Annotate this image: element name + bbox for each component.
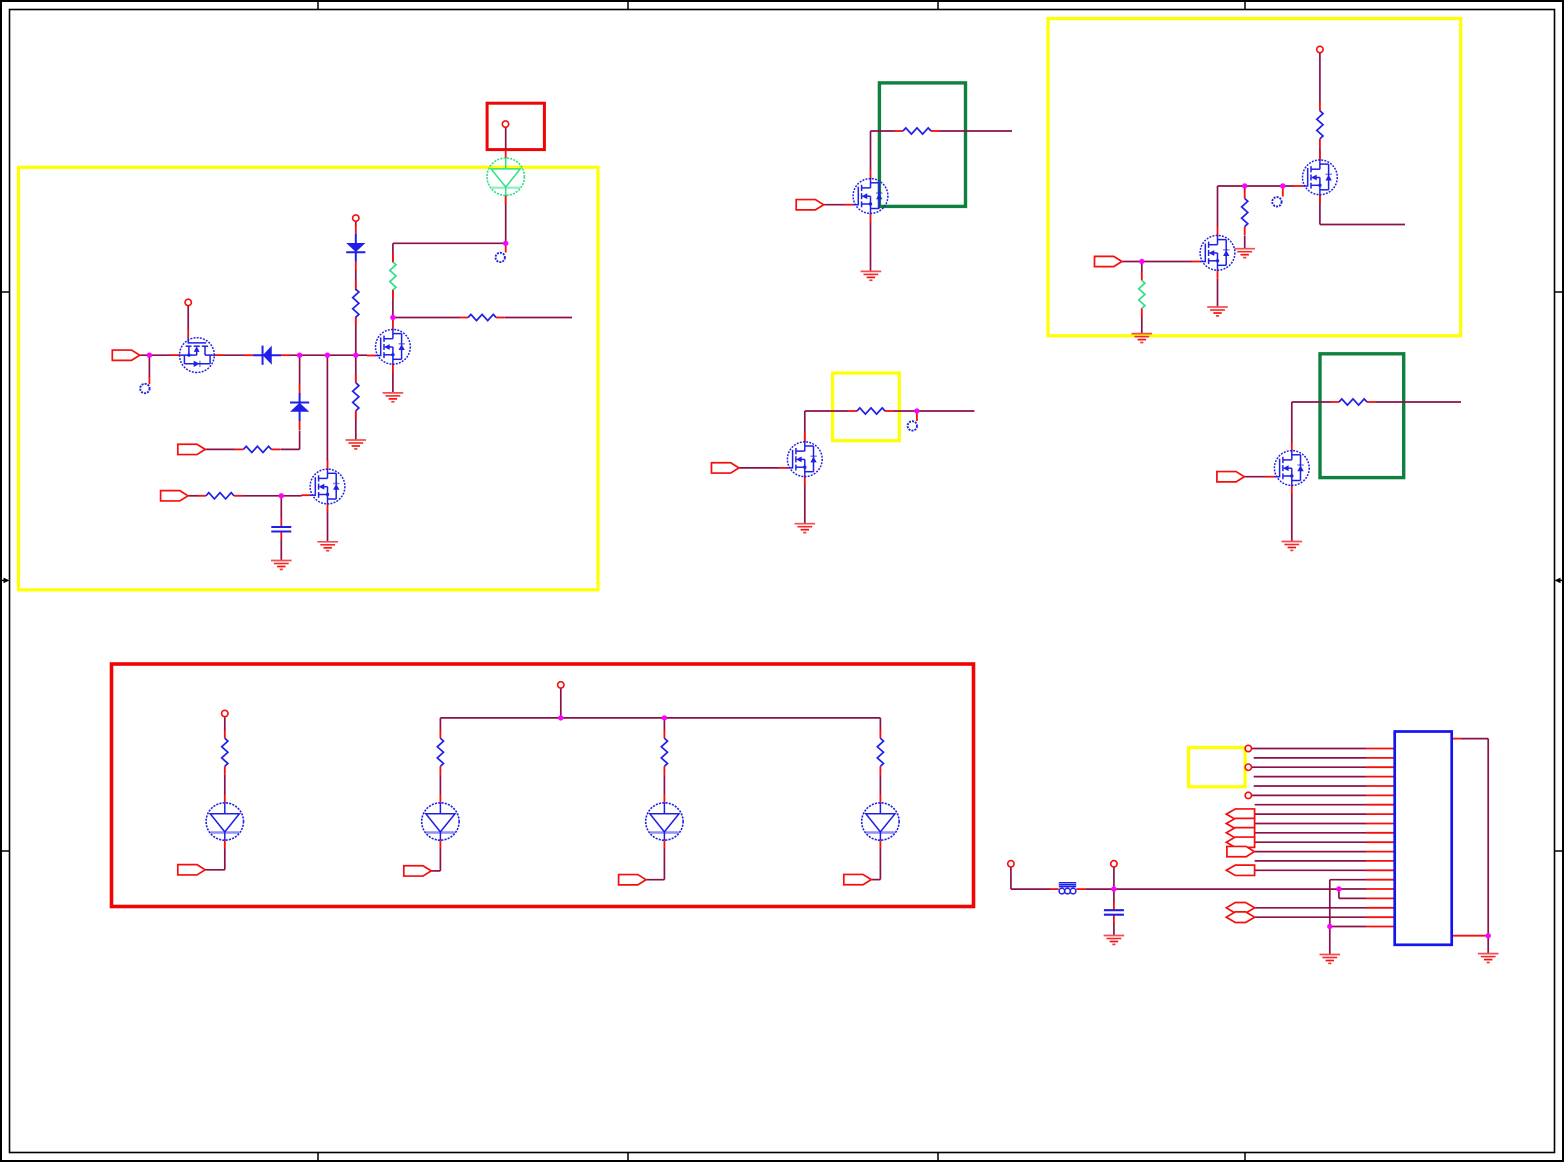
zener diode D2 bbox=[290, 384, 309, 430]
green highlight box 2 bbox=[1320, 354, 1404, 478]
wire connector row 14 bbox=[1255, 869, 1366, 871]
wire connector row 10 bbox=[1255, 832, 1366, 834]
wire to choke L1 bbox=[1011, 888, 1051, 890]
wire connector row 8 bbox=[1255, 813, 1366, 815]
port PR1 bbox=[1227, 846, 1254, 856]
wire node to Q3 drain bbox=[326, 355, 328, 461]
power pin P6 bbox=[222, 710, 228, 716]
resistor R7 bbox=[848, 408, 893, 414]
wire node to C1 bbox=[280, 496, 282, 519]
junction node H bbox=[1139, 259, 1144, 264]
port IN1 bbox=[112, 350, 139, 360]
wire port3 to R15 bbox=[188, 495, 198, 497]
wire connector row 4 bbox=[1254, 776, 1366, 778]
power pin P8 bbox=[1111, 861, 1117, 867]
ground bbox=[1234, 249, 1255, 258]
no-connect circle bbox=[140, 384, 149, 393]
wire D1 to Q2 gate node bbox=[290, 354, 368, 356]
junction node B bbox=[297, 353, 302, 358]
yellow highlight box 3 bbox=[1048, 19, 1461, 336]
border tick left y=292 bbox=[1, 291, 10, 293]
pin circle row1 bbox=[1245, 745, 1251, 751]
no-connect circle bbox=[1272, 197, 1281, 206]
capacitor C2 bbox=[1104, 902, 1124, 923]
junction node D bbox=[503, 241, 508, 246]
wire Q5 source to ground bbox=[804, 485, 806, 523]
port IN3 bbox=[161, 491, 188, 501]
wire port5 to Q5 gate bbox=[739, 467, 779, 469]
ferrite bead L1 bbox=[1050, 883, 1086, 894]
yellow highlight box 2 bbox=[833, 373, 900, 441]
resistor R14 bbox=[877, 730, 883, 775]
resistor R10 bbox=[1330, 399, 1375, 405]
port OUT4 bbox=[844, 874, 871, 884]
wire connector row 7 bbox=[1255, 804, 1366, 806]
connector J1 pin stub right top bbox=[1452, 738, 1461, 740]
wire R14 to LED4 bbox=[879, 775, 881, 795]
transistor Q7 bbox=[1294, 151, 1338, 203]
wire R11 to LED1 bbox=[224, 775, 226, 795]
junction node B2 bbox=[325, 353, 330, 358]
wire R10 right stub bbox=[1376, 401, 1462, 403]
port PB1 bbox=[1226, 903, 1254, 914]
junction node B3 bbox=[353, 353, 358, 358]
wire red stub to no-connect circle bbox=[148, 377, 150, 384]
wire D2 anode down bbox=[299, 431, 301, 450]
wire LED4 to corner bbox=[879, 849, 881, 880]
LED DS5 bbox=[862, 794, 899, 848]
wire pin P3 to LED DS1 bbox=[505, 127, 507, 150]
border mid arrow left bbox=[1, 578, 10, 584]
port OUT1 bbox=[178, 865, 205, 875]
wire corner to port11 bbox=[871, 879, 880, 881]
wire pin P2 to D3 bbox=[355, 222, 357, 226]
wire connector row 9 bbox=[1255, 823, 1366, 825]
wire pin P6 to R11 bbox=[224, 717, 226, 731]
wire node drop bbox=[1338, 889, 1340, 898]
wire Q8 drain up bbox=[1291, 402, 1293, 443]
border tick top x=628 bbox=[627, 1, 629, 10]
wire corner to R6 bbox=[871, 130, 895, 132]
diode D3 bbox=[346, 225, 365, 271]
power pin P2 bbox=[353, 215, 359, 221]
junction node F bbox=[914, 408, 919, 413]
wire D3 to R2 bbox=[355, 271, 357, 291]
junction node C bbox=[390, 315, 395, 320]
resistor RG2 (green) bbox=[1139, 272, 1145, 317]
wire R12 to LED2 bbox=[439, 775, 441, 795]
wire R7 to right stub bbox=[894, 410, 975, 412]
wire Q7 source right stub bbox=[1320, 224, 1405, 226]
diode D1 bbox=[244, 346, 290, 365]
wire Q8 source to ground bbox=[1291, 494, 1293, 542]
resistor R9 bbox=[1242, 190, 1248, 235]
wire node to R9 bbox=[1244, 186, 1246, 191]
wire Q5 drain up bbox=[804, 411, 806, 443]
port IN5 bbox=[712, 463, 739, 473]
wire stub to no-connect bbox=[148, 355, 150, 377]
wire port1 to Q1 source bbox=[140, 354, 171, 356]
wire right pin top bbox=[1461, 738, 1488, 740]
wire R4 to corner bbox=[280, 448, 299, 450]
wire RG1 to Q2 drain node bbox=[392, 290, 394, 323]
wire connector row 19 bbox=[1254, 916, 1366, 918]
wire node to C2 bbox=[1113, 889, 1115, 902]
power pin P1 bbox=[185, 299, 191, 305]
wire R9 to ground bbox=[1244, 236, 1246, 249]
wire Q6 source to ground bbox=[1217, 279, 1219, 307]
LED DS1 (green) bbox=[487, 150, 524, 204]
wire pin P1 to Q1 gate bbox=[187, 306, 189, 329]
port PL3 bbox=[1226, 828, 1254, 838]
wire C1 to ground bbox=[280, 540, 282, 561]
wire Q7 source down bbox=[1319, 195, 1321, 225]
port PL4 bbox=[1226, 837, 1254, 847]
wire corner down to Q6 drain bbox=[1217, 186, 1219, 227]
wire connector row 12 bbox=[1255, 851, 1366, 853]
border tick top x=318 bbox=[317, 1, 319, 10]
border tick right y=292 bbox=[1555, 291, 1564, 293]
wire connector row 2 bbox=[1254, 757, 1366, 759]
transistor Q4 bbox=[844, 170, 888, 222]
transistor Q3 bbox=[301, 460, 345, 512]
wire node to R5 bbox=[393, 317, 460, 319]
junction node G bbox=[1280, 183, 1285, 188]
resistor R6 bbox=[894, 128, 939, 134]
wire bus to R14 bbox=[879, 718, 881, 732]
wire right rail down bbox=[1487, 739, 1489, 936]
wire connector row 13 bbox=[1255, 860, 1366, 862]
resistor R13 bbox=[661, 730, 667, 775]
connector J1 pin stub right bottom bbox=[1452, 935, 1489, 937]
wire corner to port10 bbox=[646, 879, 664, 881]
junction node L bbox=[1327, 924, 1332, 929]
transistor Q1 bbox=[171, 329, 223, 373]
no-connect circle bbox=[496, 253, 505, 262]
resistor R3 bbox=[353, 374, 359, 419]
wire corner to port8 bbox=[205, 869, 225, 871]
border tick bottom x=938 bbox=[937, 1153, 939, 1162]
border tick top x=938 bbox=[937, 1, 939, 10]
wire LED supply bus bbox=[440, 717, 880, 719]
port IN2 bbox=[178, 444, 205, 454]
junction node E bbox=[279, 493, 284, 498]
port OUT2 bbox=[404, 866, 431, 876]
wire node to RG2 bbox=[1141, 262, 1143, 273]
ground bbox=[1132, 334, 1153, 343]
ground bbox=[795, 524, 816, 533]
border tick bottom x=1245 bbox=[1244, 1153, 1246, 1162]
wire connector row 15 corner bbox=[1330, 879, 1366, 881]
wire port2 to R4 bbox=[205, 448, 235, 450]
wire rail to ground bbox=[1487, 936, 1489, 954]
yellow highlight box 1 bbox=[19, 167, 599, 590]
wire choke to connector node bbox=[1086, 888, 1339, 890]
border tick bottom x=628 bbox=[627, 1153, 629, 1162]
pin circle row6 bbox=[1245, 792, 1251, 798]
wire connector row 1 bbox=[1252, 748, 1367, 750]
wire port4 to Q4 gate bbox=[824, 204, 845, 206]
port IN4 bbox=[796, 200, 823, 210]
wire LED DS1 to node bbox=[505, 196, 507, 243]
resistor R12 bbox=[437, 730, 443, 775]
border tick top x=1245 bbox=[1244, 1, 1246, 10]
resistor R5 bbox=[460, 314, 505, 320]
wire R5 right stub bbox=[505, 317, 572, 319]
wire node row to Q7 gate bbox=[1218, 185, 1295, 187]
border tick bottom x=318 bbox=[317, 1153, 319, 1162]
wire Q3 source to ground bbox=[327, 512, 329, 542]
junction node A bbox=[147, 353, 152, 358]
wire RG2 to ground bbox=[1141, 317, 1143, 333]
wire red stub to no-connect 2 bbox=[505, 243, 507, 252]
wire corner to RG1 bbox=[392, 243, 394, 262]
green highlight box 1 bbox=[879, 83, 965, 206]
wire R3 to ground bbox=[355, 412, 357, 441]
wire R13 to LED3 bbox=[663, 775, 665, 795]
LED DS4 bbox=[646, 794, 683, 848]
ground bbox=[1207, 307, 1228, 316]
ground bbox=[1282, 542, 1303, 551]
wire red stub to no-connect 4 bbox=[1282, 186, 1284, 197]
ground bbox=[317, 542, 338, 551]
transistor Q8 bbox=[1266, 442, 1310, 494]
port PL1 bbox=[1226, 809, 1254, 819]
wire port7 to Q8 gate bbox=[1244, 476, 1266, 478]
red highlight box (P3) bbox=[487, 103, 544, 149]
wire pin P8 down bbox=[1113, 867, 1115, 889]
wire connector row 6 bbox=[1252, 794, 1367, 796]
wire corner to LED node bbox=[393, 242, 506, 244]
wire bus to R12 bbox=[439, 718, 441, 732]
port OUT3 bbox=[619, 875, 646, 885]
wire pin P7 down bbox=[1010, 867, 1012, 889]
wire C2 to ground bbox=[1113, 923, 1115, 936]
ground bbox=[1478, 954, 1499, 963]
wire LED1 to corner bbox=[224, 849, 226, 870]
yellow highlight box 4 bbox=[1189, 748, 1246, 787]
resistor R11 bbox=[222, 730, 228, 775]
wire red stub to no-connect 3 bbox=[916, 411, 918, 421]
wire R6 right stub bbox=[940, 130, 1013, 132]
wire bus to R13 bbox=[663, 718, 665, 732]
ground bbox=[1104, 936, 1125, 945]
wire connector row 16 from node bbox=[1339, 888, 1366, 890]
junction node G2 bbox=[1242, 183, 1247, 188]
wire corner to port9 bbox=[431, 870, 440, 872]
port IN7 bbox=[1217, 472, 1244, 482]
border mid arrow right bbox=[1555, 578, 1564, 584]
LED DS2 bbox=[206, 794, 243, 848]
wire LED3 to corner bbox=[663, 849, 665, 880]
wire connector row 5 bbox=[1254, 785, 1366, 787]
wire pin P4 to R8 bbox=[1319, 53, 1321, 103]
wire port6 to Q6 gate bbox=[1122, 261, 1192, 263]
ground bbox=[271, 561, 292, 570]
no-connect circle bbox=[908, 421, 917, 430]
power pin P3 bbox=[502, 121, 508, 127]
capacitor C1 bbox=[271, 519, 291, 540]
wire connector row 17 bbox=[1339, 897, 1366, 899]
wire R2 to node bbox=[355, 317, 357, 356]
wire connector row 11 bbox=[1255, 841, 1366, 843]
power pin P7 bbox=[1008, 861, 1014, 867]
power pin P4 bbox=[1317, 46, 1323, 52]
resistor R4 bbox=[235, 446, 280, 452]
wire LED2 to corner bbox=[439, 849, 441, 871]
ground bbox=[346, 440, 367, 449]
port PL2 bbox=[1226, 818, 1254, 828]
resistor RG1 (green) bbox=[390, 253, 396, 298]
wire corner to R7 bbox=[805, 410, 849, 412]
power pin P5 bbox=[558, 682, 564, 688]
wire Q4 source to ground bbox=[870, 222, 872, 272]
junction node M bbox=[1486, 933, 1491, 938]
resistor R8 bbox=[1317, 102, 1323, 147]
pin circle row3 bbox=[1245, 764, 1251, 770]
connector J1 body bbox=[1395, 732, 1452, 945]
wire R8 to Q7 drain bbox=[1319, 148, 1321, 161]
wire connector row 18 bbox=[1254, 907, 1366, 909]
wire vertical to ground (connector) bbox=[1329, 880, 1331, 955]
red highlight box (LED bank) bbox=[112, 664, 974, 907]
ground bbox=[861, 271, 882, 280]
ground bbox=[1320, 955, 1341, 964]
border tick right y=851 bbox=[1555, 850, 1564, 852]
wire node to R3 bbox=[355, 355, 357, 382]
wire corner to R10 bbox=[1292, 401, 1331, 403]
transistor Q2 bbox=[367, 321, 411, 373]
wire pin P5 down to bus bbox=[560, 689, 562, 718]
junction node J bbox=[1111, 886, 1116, 891]
wire Q1 drain to D1 bbox=[223, 354, 245, 356]
junction node K bbox=[1336, 886, 1341, 891]
LED DS3 bbox=[422, 794, 459, 848]
wire Q2 source to ground bbox=[392, 372, 394, 393]
resistor R2 bbox=[353, 281, 359, 326]
wire connector row 20 bbox=[1330, 926, 1366, 928]
port PB2 bbox=[1226, 912, 1254, 923]
junction bus node 2 bbox=[662, 715, 667, 720]
port PL5 bbox=[1226, 865, 1254, 875]
resistor R15 bbox=[197, 493, 242, 499]
junction bus node 1 bbox=[558, 715, 563, 720]
wire Q4 drain up bbox=[870, 131, 872, 171]
transistor Q5 bbox=[779, 433, 823, 485]
connector J1 pin stubs left bbox=[1366, 749, 1395, 927]
ground bbox=[383, 393, 404, 402]
transistor Q6 bbox=[1191, 227, 1235, 279]
wire connector row 3 bbox=[1252, 766, 1367, 768]
port IN6 bbox=[1095, 256, 1122, 266]
wire R15 to Q3 gate bbox=[242, 495, 301, 497]
wire node to zener D2 bbox=[299, 355, 301, 384]
border tick left y=851 bbox=[1, 850, 10, 852]
